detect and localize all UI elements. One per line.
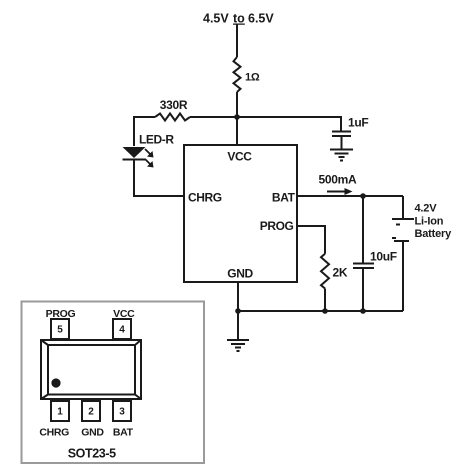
package body SOT23-5 — [41, 340, 141, 399]
node VIN label 4.5V to 6.5V — [203, 12, 274, 26]
wire battery minus to rail — [402, 241, 404, 311]
capacitor C1 1uF — [332, 132, 351, 150]
pin 3 box — [113, 401, 131, 421]
battery label — [415, 203, 453, 241]
wire to battery plus — [402, 196, 404, 218]
wire R1 to node A — [236, 92, 238, 118]
svg-text:LED-R: LED-R — [139, 133, 174, 147]
svg-text:1uF: 1uF — [348, 116, 368, 130]
svg-text:6.5V: 6.5V — [248, 12, 274, 26]
svg-text:SOT23-5: SOT23-5 — [68, 447, 116, 461]
ground under C1 — [330, 150, 353, 161]
wire R2 to LED — [134, 117, 155, 146]
svg-text:3: 3 — [119, 407, 125, 418]
wire rail to ground symbol — [237, 311, 239, 339]
svg-text:BAT: BAT — [113, 427, 134, 439]
svg-text:500mA: 500mA — [319, 173, 357, 187]
IC U1 body — [184, 145, 297, 282]
svg-text:Li-Ion: Li-Ion — [415, 216, 444, 228]
node junction C2 rail — [360, 308, 366, 314]
svg-text:2: 2 — [88, 407, 94, 418]
wire supply to R1 — [236, 24, 238, 57]
wire R3 to rail — [324, 289, 326, 312]
current arrow — [327, 188, 353, 195]
svg-text:1: 1 — [57, 407, 63, 418]
node B junction BAT — [360, 193, 366, 199]
svg-text:2K: 2K — [333, 266, 348, 280]
capacitor C2 10uF — [353, 264, 374, 269]
svg-text:CHRG: CHRG — [188, 191, 222, 205]
pin 2 box — [82, 401, 100, 421]
svg-text:BAT: BAT — [272, 191, 296, 205]
package inset box — [22, 302, 205, 464]
wire node A to VCC pin — [236, 117, 238, 145]
svg-text:GND: GND — [227, 267, 253, 281]
node junction GND rail — [235, 308, 241, 314]
wire node A to R2 — [190, 116, 237, 118]
svg-text:1Ω: 1Ω — [245, 72, 260, 84]
svg-text:4.2V: 4.2V — [415, 203, 438, 215]
pin 5 box — [51, 319, 69, 339]
node junction R3 rail — [322, 308, 328, 314]
svg-text:4.5V: 4.5V — [203, 12, 229, 26]
svg-text:GND: GND — [81, 427, 104, 439]
svg-text:VCC: VCC — [227, 150, 252, 164]
LED light arrows — [145, 149, 154, 168]
battery BT1 — [392, 219, 414, 241]
resistor R3 2K — [321, 254, 329, 289]
wire node B to C2 — [362, 196, 364, 263]
resistor R1 1ohm — [234, 57, 241, 92]
wire C2 to rail — [362, 268, 364, 311]
svg-text:10uF: 10uF — [370, 250, 397, 264]
svg-text:PROG: PROG — [260, 219, 294, 233]
wire ground rail — [238, 310, 403, 312]
wire GND pin to rail — [237, 282, 239, 311]
pin 4 box — [113, 319, 131, 339]
wire node A to C1 — [237, 117, 341, 131]
svg-text:CHRG: CHRG — [39, 427, 69, 439]
svg-text:Battery: Battery — [415, 228, 453, 240]
ground — [227, 340, 249, 351]
pin 1 marker dot — [51, 378, 60, 387]
svg-text:330R: 330R — [160, 98, 188, 112]
svg-text:to: to — [233, 12, 245, 26]
wire PROG pin to R3 — [297, 226, 325, 254]
svg-text:4: 4 — [119, 325, 125, 336]
LED D1 LED-R — [123, 147, 146, 160]
pin 1 box — [51, 401, 69, 421]
node A junction — [234, 114, 240, 120]
wire BAT pin to battery — [297, 195, 403, 197]
resistor R2 330R — [155, 114, 190, 121]
svg-text:5: 5 — [57, 325, 63, 336]
wire LED cathode to CHRG pin — [134, 160, 184, 197]
